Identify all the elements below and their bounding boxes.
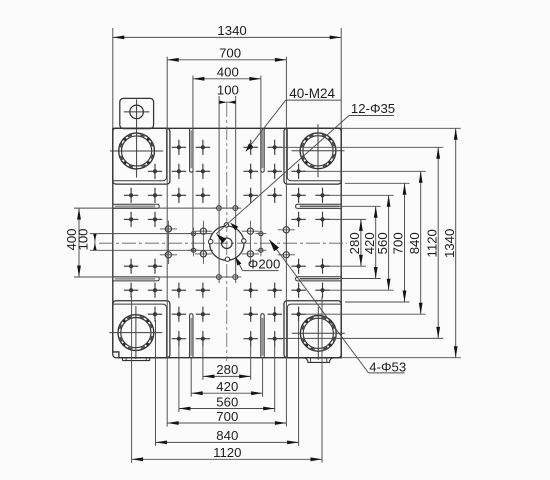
dimension 560 right extension lines xyxy=(323,195,394,290)
tie-bar corner block bottom-left xyxy=(113,301,170,358)
tapped hole M24 r-3c-3 xyxy=(148,164,162,179)
dimension 400 left line xyxy=(77,208,81,277)
T-slot top right xyxy=(261,128,264,172)
dimension 100 left extension lines xyxy=(90,234,213,251)
dimension 1120 bottom text xyxy=(213,445,241,460)
plate outline 1340x1340 platen xyxy=(113,128,341,357)
tapped hole M24 r-2c2 xyxy=(268,188,282,203)
label 12-D35 text xyxy=(351,101,395,116)
hole D35 band #5 xyxy=(160,252,177,258)
tapped hole M24 r-2c-4 xyxy=(124,188,138,203)
tapped hole M24 r2c3 xyxy=(291,283,305,298)
tapped hole M24 r-2c-3 xyxy=(148,188,162,203)
hole D35 band #4 xyxy=(278,227,295,233)
locating-ring screw hole left xyxy=(209,239,213,243)
tapped hole M24 r-3c2 xyxy=(268,164,282,179)
tapped hole M24 r1c4 xyxy=(315,259,329,274)
svg-text:700: 700 xyxy=(219,45,241,60)
dimension 700 bottom text xyxy=(216,409,238,424)
dimension 1340 right line xyxy=(454,128,458,357)
dimension 1120 bottom extension lines xyxy=(132,297,322,463)
tie-bar hole top-left xyxy=(110,125,163,178)
hole D35 pattern100x400 #1 xyxy=(213,206,225,211)
tapped hole M24 r3c2 xyxy=(268,307,282,322)
tapped hole M24 r-4c-2 xyxy=(172,140,186,155)
tapped hole M24 r3c3 xyxy=(291,307,305,322)
tapped hole M24 r-2c4 xyxy=(315,188,329,203)
tapped hole M24 r4c-2 xyxy=(172,331,186,346)
svg-text:100: 100 xyxy=(217,82,239,97)
tie-bar hole bottom-left xyxy=(109,306,162,359)
svg-text:Φ200: Φ200 xyxy=(248,257,281,272)
mounting ear top-left xyxy=(120,98,154,128)
dimension 420 bottom extension lines xyxy=(191,358,262,397)
tie-bar corner block top-left xyxy=(113,128,170,184)
tapped hole M24 r2c-1 xyxy=(196,283,210,298)
dimension 1120 right extension lines xyxy=(278,147,443,338)
tapped hole M24 r2c2 xyxy=(268,283,282,298)
tie-bar hole bottom-right xyxy=(292,307,345,360)
vertical centerline xyxy=(226,103,228,361)
svg-text:840: 840 xyxy=(407,232,422,254)
label D200 leader xyxy=(236,257,279,271)
tapped hole M24 r2c-4 xyxy=(124,283,138,298)
tapped hole M24 r-3c1 xyxy=(244,164,258,179)
svg-text:1340: 1340 xyxy=(442,229,457,258)
T-slot right lower xyxy=(296,277,342,281)
dimension 700 right extension lines xyxy=(345,183,410,302)
foot under bottom-right tie bar xyxy=(303,358,334,363)
svg-text:4-Φ53: 4-Φ53 xyxy=(369,360,406,375)
svg-text:1120: 1120 xyxy=(213,445,241,460)
dimension 420 right extension lines xyxy=(300,206,381,278)
hole D35 pattern100x400 #4 xyxy=(229,275,241,280)
hole D35 pattern100x400 #2 xyxy=(229,206,241,211)
hole D35 pattern100x400 #3 xyxy=(213,275,225,280)
tapped hole M24 r4c2 xyxy=(268,331,282,346)
hole D35 band #6 xyxy=(195,251,212,257)
dimension 840 bottom text xyxy=(216,428,238,443)
svg-text:100: 100 xyxy=(76,228,91,250)
T-slot bottom right xyxy=(261,314,264,358)
dimension 1340 right text xyxy=(442,229,457,258)
dimension 420 bottom line xyxy=(191,391,262,395)
locating-ring screw hole bottom xyxy=(225,257,229,261)
dimension 100 top text xyxy=(217,82,239,97)
T-slot left lower xyxy=(113,277,159,281)
dimension 280 bottom text xyxy=(216,362,238,377)
dimension 1340 right extension lines xyxy=(341,128,461,357)
tapped hole M24 r3c-2 xyxy=(172,307,186,322)
dimension 100 left line xyxy=(93,234,96,251)
central locating bore xyxy=(222,238,233,249)
tapped hole M24 r2c-2 xyxy=(172,283,186,298)
foot under bottom-left tie bar xyxy=(123,358,150,361)
tapped hole M24 r2c1 xyxy=(244,283,258,298)
tapped hole M24 r-3c-2 xyxy=(172,164,186,179)
dimension 420 right line xyxy=(374,206,378,278)
label 4-D53 text xyxy=(369,360,406,375)
dimension 560 right text xyxy=(375,232,390,254)
dimension 560 right line xyxy=(387,195,391,290)
T-slot left upper xyxy=(113,204,159,208)
centerline D35 column xyxy=(285,221,287,264)
hole D35 band #2 xyxy=(195,228,212,234)
tapped hole M24 r-3c3 xyxy=(291,164,305,179)
dimension 840 right text xyxy=(407,232,422,254)
svg-text:840: 840 xyxy=(216,428,238,443)
hole D35 band #3 xyxy=(242,228,259,234)
svg-text:400: 400 xyxy=(217,64,239,79)
hole D35 band #8 xyxy=(278,252,295,258)
tapped hole M24 r-4c2 xyxy=(268,140,282,155)
svg-text:700: 700 xyxy=(391,232,406,254)
svg-text:1120: 1120 xyxy=(424,229,439,257)
dimension 1120 right text xyxy=(424,229,439,257)
tapped hole M24 r-4c1 xyxy=(244,140,258,155)
label 4-D53 leader xyxy=(269,240,404,373)
tie-bar corner block bottom-right xyxy=(284,301,341,358)
hole D35 band #7 xyxy=(242,251,259,257)
dimension 1120 right line xyxy=(436,147,440,338)
hole pattern400x100 #2 xyxy=(188,248,199,252)
tapped hole M24 r-1c4 xyxy=(315,212,329,227)
dimension 840 right line xyxy=(419,171,423,314)
dimension 280 bottom line xyxy=(203,375,251,379)
tapped hole M24 r-1c3 xyxy=(291,212,305,227)
tapped hole M24 r-3c-1 xyxy=(196,164,210,179)
dimension 840 bottom extension lines xyxy=(156,320,299,446)
dimension 840 bottom line xyxy=(156,441,299,445)
dimension 100 top extension lines xyxy=(219,96,236,283)
dimension 100 left text xyxy=(76,228,91,250)
tapped hole M24 r4c-1 xyxy=(196,331,210,346)
tapped hole M24 r-2c-1 xyxy=(196,188,210,203)
dimension 1340 top text xyxy=(217,23,246,38)
svg-text:280: 280 xyxy=(216,362,238,377)
tapped hole M24 r1c-4 xyxy=(124,259,138,274)
tapped hole M24 r-1c-3 xyxy=(148,212,162,227)
dimension 1120 bottom line xyxy=(132,457,322,461)
tapped hole M24 r2c4 xyxy=(315,283,329,298)
locating-ring screw hole right xyxy=(242,239,246,243)
hole pattern400x100 #1 xyxy=(188,232,199,236)
tie-bar hole top-right xyxy=(292,124,345,177)
dimension 400 top line xyxy=(193,77,261,81)
ear hole xyxy=(124,99,150,124)
dimension 700 top extension lines xyxy=(167,57,286,427)
dimension 400 left text xyxy=(64,228,79,250)
dimension 280 bottom extension lines xyxy=(203,346,251,380)
dimension 700 top text xyxy=(219,45,241,60)
tapped hole M24 r-1c-4 xyxy=(124,212,138,227)
centerline D35 column xyxy=(167,221,169,264)
dimension 280 right text xyxy=(347,232,362,254)
dimension 1340 top extension lines xyxy=(113,28,341,128)
hole pattern400x100 #3 xyxy=(255,232,266,236)
T-slot right upper xyxy=(296,204,342,208)
dimension 560 bottom line xyxy=(179,407,275,411)
dimension 420 bottom text xyxy=(216,379,238,394)
dimension 280 right extension lines xyxy=(325,219,366,266)
tapped hole M24 r3c1 xyxy=(244,307,258,322)
svg-text:40-M24: 40-M24 xyxy=(289,86,335,101)
tapped hole M24 r1c-3 xyxy=(148,259,162,274)
svg-text:12-Φ35: 12-Φ35 xyxy=(351,101,395,116)
tapped hole M24 r4c1 xyxy=(244,331,258,346)
tapped hole M24 r2c-3 xyxy=(148,283,162,298)
label 40-M24 text xyxy=(289,86,335,101)
dimension 100 top line xyxy=(219,101,236,104)
label 40-M24 leader xyxy=(246,100,342,152)
svg-text:1340: 1340 xyxy=(217,23,246,38)
tapped hole M24 r-2c3 xyxy=(291,188,305,203)
central hole D200 xyxy=(210,226,244,260)
hole pattern400x100 #4 xyxy=(255,248,266,252)
svg-text:560: 560 xyxy=(216,394,238,409)
tapped hole M24 r1c3 xyxy=(291,259,305,274)
T-slot top left xyxy=(190,128,193,172)
dimension 700 right line xyxy=(403,183,407,302)
svg-text:280: 280 xyxy=(347,232,362,254)
centerline pattern400 column xyxy=(260,228,262,257)
tapped hole M24 r3c-1 xyxy=(196,307,210,322)
dimension 840 right extension lines xyxy=(299,171,426,314)
T-slot bottom left xyxy=(190,314,193,358)
dimension 560 bottom text xyxy=(216,394,238,409)
centerline pattern400 column xyxy=(193,228,195,257)
hole D35 band #1 xyxy=(160,226,177,232)
svg-text:420: 420 xyxy=(216,379,238,394)
horizontal centerline xyxy=(99,242,347,244)
dimension 1340 top line xyxy=(113,36,341,40)
dimension 560 bottom extension lines xyxy=(179,346,275,413)
label 12-D35 leader xyxy=(216,116,394,244)
dimension 420 right text xyxy=(362,232,377,254)
tapped hole M24 r3c-3 xyxy=(148,307,162,322)
dimension 700 top line xyxy=(167,58,286,62)
dimension 400 top extension lines xyxy=(193,76,261,252)
tie-bar corner block top-right xyxy=(284,128,341,184)
tapped hole M24 r-2c1 xyxy=(244,188,258,203)
centerline D35 column xyxy=(202,221,204,264)
label D200 text xyxy=(248,257,281,272)
dimension 700 right text xyxy=(391,232,406,254)
dimension 400 top text xyxy=(217,64,239,79)
svg-text:700: 700 xyxy=(216,409,238,424)
tapped hole M24 r-4c-1 xyxy=(196,140,210,155)
tapped hole M24 r-2c-2 xyxy=(172,188,186,203)
svg-text:560: 560 xyxy=(375,232,390,254)
dimension 400 left extension lines xyxy=(74,208,239,277)
dimension 700 bottom line xyxy=(167,421,286,425)
dimension 280 right line xyxy=(359,219,363,266)
centerline D35 column xyxy=(249,221,251,264)
locating-ring screw hole top xyxy=(224,223,228,227)
